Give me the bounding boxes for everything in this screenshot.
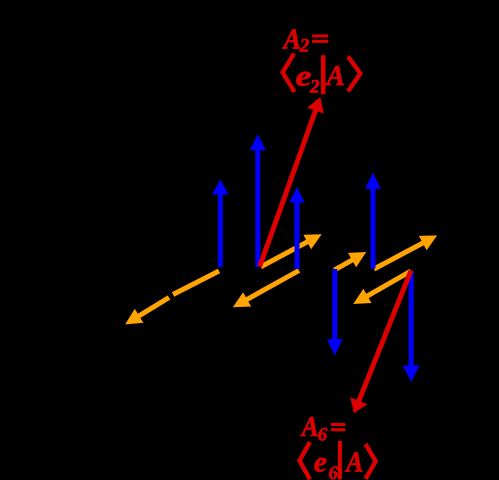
vertical bar (top) xyxy=(321,55,326,94)
component vector A5 (blue, up) xyxy=(365,173,381,269)
svg-text:2: 2 xyxy=(309,77,320,98)
left angle bracket (top bra) xyxy=(283,54,361,95)
svg-text:6: 6 xyxy=(329,463,339,480)
equals sign (bottom) xyxy=(331,423,345,431)
component vector A2 (blue, up, tallest) xyxy=(250,134,266,267)
basis axis arrow e1 head segment xyxy=(125,298,169,325)
svg-text:A: A xyxy=(282,25,301,56)
component vector A3 (blue, up) xyxy=(289,187,304,269)
red callout arrow to A2 label xyxy=(260,97,324,267)
svg-text:6: 6 xyxy=(318,425,328,446)
right angle bracket (bottom ket) xyxy=(366,444,376,479)
basis vector e6 (orange, backward) xyxy=(353,271,411,304)
svg-text:e: e xyxy=(314,446,327,479)
right angle bracket (top ket) xyxy=(348,57,360,92)
e6 and A text (bottom bra-ket) xyxy=(314,446,363,480)
basis vector e3 (orange, backward) xyxy=(233,271,299,308)
basis vector e4 (orange, forward) xyxy=(334,252,366,270)
e2 and A text (top bra-ket) xyxy=(296,59,345,97)
basis axis arrow e1 (orange, back segment) xyxy=(173,271,219,295)
label A6 = (line 1) xyxy=(300,412,328,446)
svg-text:A: A xyxy=(325,61,345,92)
red callout arrow to A6 label xyxy=(350,271,411,414)
left angle bracket (bottom bra) xyxy=(300,441,376,479)
equals sign (top) xyxy=(312,34,328,42)
component vector A6 (blue, down) xyxy=(403,271,420,382)
svg-text:A: A xyxy=(300,412,319,443)
basis vector e5 (orange, forward) xyxy=(374,235,437,269)
component vector A4 (blue, down) xyxy=(327,269,343,356)
label A2 = (line 1) xyxy=(282,25,310,57)
vertical bar (bottom) xyxy=(338,441,342,479)
svg-text:2: 2 xyxy=(299,36,310,57)
basis vector e2 (orange, forward) xyxy=(261,234,322,267)
component vector A1 (blue, up) xyxy=(212,180,229,268)
svg-text:A: A xyxy=(345,447,364,479)
